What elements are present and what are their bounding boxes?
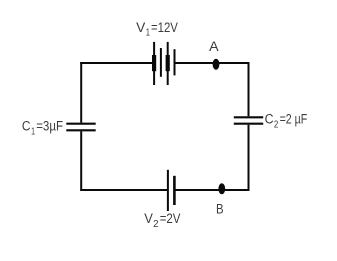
node A dot: [213, 59, 220, 70]
svg-text:=2V: =2V: [160, 211, 181, 226]
wire top-right segment: [175, 62, 250, 64]
svg-text:=3µF: =3µF: [36, 118, 63, 133]
svg-text:1: 1: [31, 126, 35, 137]
battery V2 plate long: [167, 170, 169, 211]
wire bottom-left segment: [80, 189, 168, 191]
label V1=12V: [136, 20, 178, 39]
node B dot: [218, 183, 225, 194]
svg-text:V: V: [144, 211, 153, 226]
svg-text:A: A: [209, 39, 219, 54]
capacitor C2 bottom plate: [234, 123, 263, 125]
wire right lower segment: [248, 125, 250, 191]
wire top-left segment: [80, 62, 154, 64]
svg-text:B: B: [216, 201, 224, 216]
wire left lower segment: [80, 131, 82, 191]
battery V1 plate 4 short: [174, 49, 176, 75]
capacitor C1 top plate: [66, 123, 95, 125]
wire left upper segment: [80, 62, 82, 123]
label V2=2V: [144, 211, 180, 230]
battery V1 plate 1 long: [153, 42, 155, 85]
battery V2 plate short: [173, 176, 176, 205]
capacitor C2 top plate: [234, 116, 263, 118]
wire bottom-right segment: [174, 189, 249, 191]
svg-text:C: C: [265, 112, 274, 127]
battery V1 plate 2 short: [160, 48, 162, 77]
svg-text:C: C: [22, 118, 31, 133]
svg-text:V: V: [136, 20, 145, 35]
svg-text:2: 2: [153, 219, 159, 230]
label C2=2uF: [265, 112, 308, 131]
svg-text:1: 1: [146, 28, 151, 39]
svg-text:2: 2: [274, 119, 279, 130]
svg-text:=2 µF: =2 µF: [280, 112, 308, 127]
capacitor C1 bottom plate: [66, 129, 95, 131]
svg-text:=12V: =12V: [151, 20, 178, 35]
wire right upper segment: [248, 62, 250, 116]
battery V1 plate 3 long: [167, 42, 169, 85]
label C1=3uF: [22, 118, 63, 137]
